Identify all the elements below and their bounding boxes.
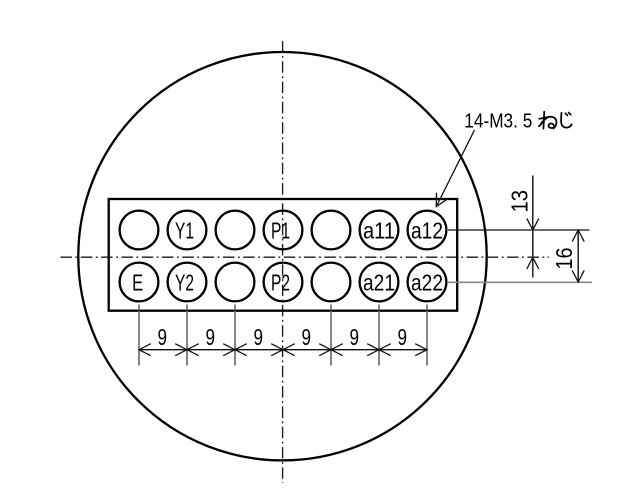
row1 col4 circle P1 <box>264 211 303 250</box>
svg-text:16: 16 <box>551 248 577 270</box>
a12 extension line (right) <box>448 229 590 231</box>
svg-text:9: 9 <box>206 324 216 350</box>
svg-text:a12: a12 <box>411 217 443 243</box>
bottom arrow right end <box>415 344 427 356</box>
row1 col7 circle a12 <box>408 211 447 250</box>
bottom double arrows X col2 <box>175 344 199 356</box>
a22 extension line (right) <box>448 281 592 283</box>
vertical centerline <box>282 41 284 483</box>
svg-text:9: 9 <box>254 324 264 350</box>
horizontal centerline <box>61 256 550 258</box>
svg-text:a21: a21 <box>363 269 395 295</box>
dim 13 line <box>532 176 534 278</box>
leader line for screw callout <box>436 130 474 207</box>
svg-text:Y2: Y2 <box>175 269 194 295</box>
row2 col7 circle a22 <box>408 263 447 302</box>
dim 16 arrow down at 282 <box>572 270 584 282</box>
bottom double arrows X col3 <box>223 344 247 356</box>
svg-text:9: 9 <box>398 324 408 350</box>
bottom extension line col6 <box>378 305 380 366</box>
svg-text:Y1: Y1 <box>175 217 194 243</box>
row1 col3 circle (blank) <box>216 211 255 250</box>
svg-text:P1: P1 <box>271 217 290 243</box>
bottom extension line col7 <box>426 305 428 366</box>
row2 col2 circle Y2 <box>168 263 207 302</box>
svg-text:9: 9 <box>302 324 312 350</box>
bottom extension line col5 <box>330 305 332 366</box>
row1 col6 circle a11 <box>360 211 399 250</box>
hiragana JI (drawn path) <box>561 113 572 128</box>
svg-text:9: 9 <box>350 324 360 350</box>
row2 col3 circle (blank) <box>216 263 255 302</box>
terminal block rectangle <box>109 199 458 311</box>
row1 col1 circle (blank) <box>120 211 159 250</box>
big outer circle (connector body) <box>78 52 486 460</box>
bottom dimension line <box>139 349 427 351</box>
dim 16 line <box>577 230 579 282</box>
dim 13 arrow up at 257.4 <box>527 257 539 269</box>
bottom double arrows X col6 <box>367 344 391 356</box>
bottom extension line col2 <box>186 305 188 366</box>
svg-text:a11: a11 <box>363 217 395 243</box>
row2 col5 circle (blank) <box>312 263 351 302</box>
row2 col1 circle E <box>120 263 159 302</box>
bottom arrow left end <box>139 344 151 356</box>
bottom double arrows X col5 <box>319 344 343 356</box>
row1 col5 circle (blank) <box>312 211 351 250</box>
svg-text:13: 13 <box>506 190 532 213</box>
hiragana NE (drawn path) <box>539 112 557 129</box>
svg-text:a22: a22 <box>411 269 443 295</box>
bottom extension line col3 <box>234 305 236 366</box>
bottom extension line col1 <box>138 305 140 366</box>
bottom double arrows X col4 <box>271 344 295 356</box>
svg-text:E: E <box>132 269 143 295</box>
svg-text:9: 9 <box>158 324 168 350</box>
leader arrowhead <box>436 193 446 207</box>
dim 13 arrow down at 230 <box>527 218 539 230</box>
svg-text:14-M3. 5: 14-M3. 5 <box>464 110 532 132</box>
row2 col6 circle a21 <box>360 263 399 302</box>
dim 16 arrow up at 230 <box>572 230 584 242</box>
svg-text:P2: P2 <box>271 269 290 295</box>
row1 col2 circle Y1 <box>168 211 207 250</box>
row2 col4 circle P2 <box>264 263 303 302</box>
